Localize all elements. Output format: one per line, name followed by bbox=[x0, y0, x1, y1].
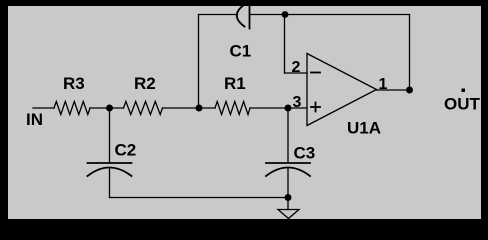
resistor R1 bbox=[215, 102, 250, 115]
capacitor C1 curved left plate bbox=[237, 5, 245, 27]
resistor R2 bbox=[124, 102, 163, 115]
svg-text:C2: C2 bbox=[115, 141, 137, 160]
capacitor C3 curved bottom plate bbox=[266, 168, 310, 177]
border band bottom bbox=[0, 219, 488, 233]
svg-text:3: 3 bbox=[293, 94, 302, 111]
junction node B (R2/R1/feedback) bbox=[196, 105, 203, 112]
wire: input lead from IN to R3 bbox=[33, 107, 54, 109]
op-amp inverting input minus sign bbox=[311, 72, 320, 74]
op-amp non-inverting input plus sign bbox=[311, 106, 320, 108]
wire: bottom rail bbox=[110, 197, 289, 199]
capacitor C3 top plate bbox=[266, 162, 310, 164]
svg-text:IN: IN bbox=[26, 110, 43, 129]
wire: node A down to capacitor C2 bbox=[109, 108, 111, 163]
wire: R3 to node A bbox=[90, 107, 124, 109]
svg-text:1: 1 bbox=[379, 76, 388, 93]
ground symbol bbox=[278, 210, 299, 219]
OUT pin tick bbox=[462, 89, 466, 93]
wire: right vertical down to output node bbox=[409, 15, 411, 91]
svg-text:OUT: OUT bbox=[444, 95, 481, 114]
junction node C (R1/C3/pin3) bbox=[285, 105, 292, 112]
svg-text:C1: C1 bbox=[230, 42, 252, 61]
wire: op-amp output lead to node D bbox=[377, 89, 410, 91]
border band top bbox=[0, 0, 488, 6]
wire: node B up to feedback line bbox=[198, 15, 200, 109]
capacitor C1 straight right plate bbox=[249, 4, 251, 29]
wire: pin 2 branch down from feedback line bbox=[284, 15, 286, 74]
resistor R3 bbox=[54, 102, 90, 115]
capacitor C2 top plate bbox=[88, 162, 132, 164]
svg-text:C3: C3 bbox=[294, 144, 316, 163]
svg-text:2: 2 bbox=[292, 59, 301, 76]
junction at ground on bottom rail bbox=[285, 194, 292, 201]
svg-text:R3: R3 bbox=[63, 74, 85, 93]
wire: R1 to node C and op-amp pin 3 bbox=[250, 107, 307, 109]
capacitor C2 curved bottom plate bbox=[88, 168, 132, 177]
junction on feedback line at pin 2 branch bbox=[282, 11, 289, 18]
border band left bbox=[0, 0, 8, 233]
svg-text:R2: R2 bbox=[134, 74, 156, 93]
border band right bbox=[481, 0, 488, 233]
svg-text:U1A: U1A bbox=[347, 119, 381, 138]
wire: feedback line left segment to C1 bbox=[199, 14, 238, 16]
wire: C3 to bottom rail bbox=[287, 168, 289, 198]
wire: R2 to node B bbox=[163, 107, 216, 109]
junction node A (R3/R2/C2) bbox=[106, 105, 113, 112]
wire: pin 2 lead into op-amp bbox=[285, 72, 308, 74]
junction node D (output) bbox=[406, 87, 413, 94]
wire: C2 to bottom rail bbox=[109, 168, 111, 198]
svg-text:R1: R1 bbox=[224, 74, 246, 93]
wire: ground stem bbox=[287, 198, 289, 210]
op-amp U1A triangle bbox=[307, 54, 377, 126]
wire: node C down to capacitor C3 bbox=[287, 108, 289, 163]
wire: feedback line right segment from C1 to output corner bbox=[250, 14, 410, 16]
